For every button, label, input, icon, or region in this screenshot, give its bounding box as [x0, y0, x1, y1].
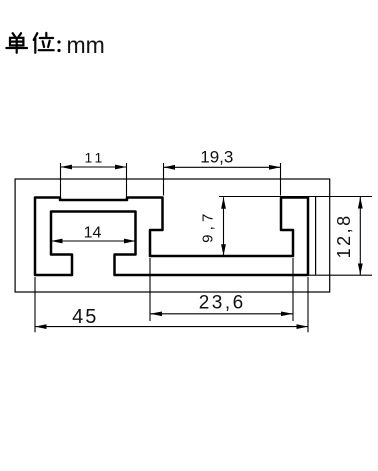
- thin outer rectangle: [15, 179, 330, 292]
- dimension 45 line: [35, 326, 308, 328]
- dimension 19,3 line: [164, 166, 281, 168]
- svg-text:mm: mm: [67, 32, 105, 58]
- dimension 19,3 extension lines: [163, 163, 165, 196]
- dimension 23,6 extension lines: [149, 258, 151, 321]
- dimension 23,6 arrows: [150, 312, 162, 317]
- dimension 45 arrows: [35, 324, 47, 329]
- dimension 11 line: [61, 166, 127, 168]
- inner thin vertical line right of profile: [315, 197, 317, 275]
- dimension 12,8 bottom extension line: [309, 274, 372, 276]
- header text 单位: mm: [6, 33, 53, 53]
- dimension 19,3 arrows: [164, 165, 176, 170]
- dimension 11 arrows: [61, 165, 73, 170]
- svg-text:45: 45: [72, 306, 98, 328]
- hanzi 单: [6, 33, 27, 53]
- svg-text:14: 14: [84, 225, 102, 242]
- profile outline: [35, 198, 308, 276]
- dimension 12,8 line: [359, 197, 361, 275]
- svg-text:12,8: 12,8: [334, 213, 354, 258]
- dimension 9,7 arrows: [221, 197, 226, 209]
- dimension 14 arrows: [51, 239, 63, 244]
- dimension 9,7 line: [223, 197, 225, 256]
- colon: [57, 40, 60, 52]
- dimension 23,6 line: [150, 313, 293, 315]
- svg-text:19,3: 19,3: [200, 148, 233, 167]
- svg-text:11: 11: [85, 150, 106, 166]
- dimension 14 line: [51, 240, 136, 242]
- svg-text:23,6: 23,6: [199, 293, 246, 314]
- hanzi 位: [34, 33, 54, 53]
- dimension 9,7 top reference line: [219, 196, 372, 198]
- dimension 11 extension lines: [60, 163, 62, 199]
- dimension 12,8 arrows: [358, 197, 363, 209]
- dimension 45 extension lines: [34, 277, 36, 332]
- svg-text:9,7: 9,7: [200, 209, 217, 242]
